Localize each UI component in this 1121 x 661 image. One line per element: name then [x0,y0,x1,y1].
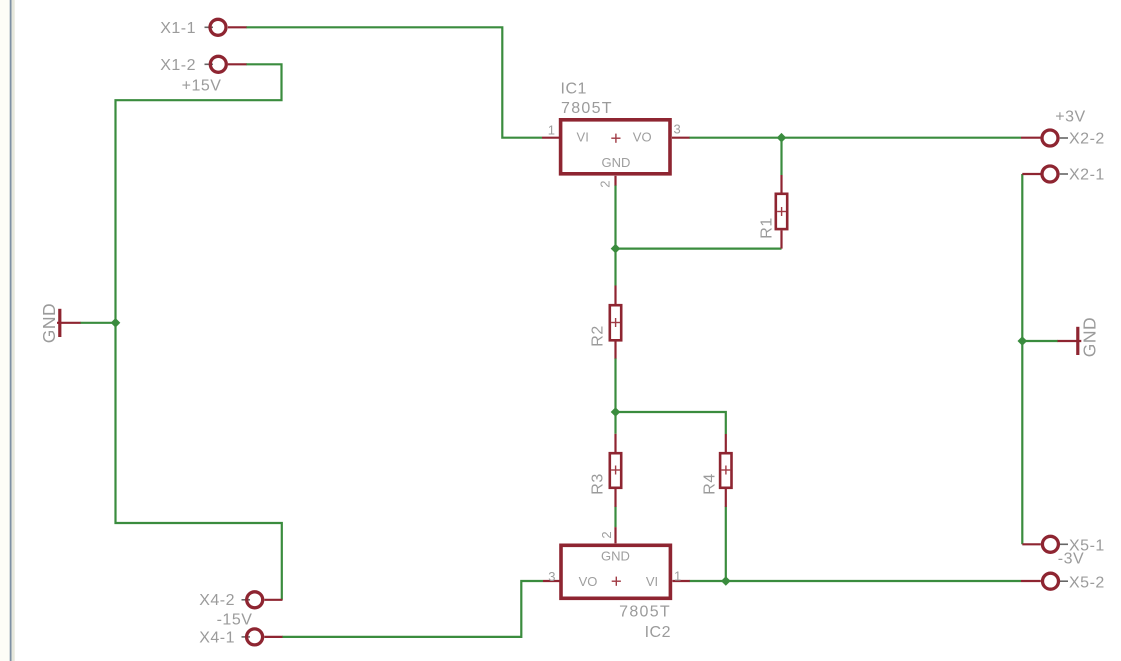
svg-text:2: 2 [599,531,614,538]
connector pin X1-1 [205,19,247,35]
svg-text:GND: GND [602,155,631,170]
svg-text:1: 1 [548,123,555,138]
wire junction to R1 bottom [616,248,782,250]
connector pin X4-2 [242,592,283,608]
svg-text:7805T: 7805T [561,100,613,117]
left window edge (decorative frame) [0,0,15,661]
svg-text:X5-2: X5-2 [1069,575,1105,592]
junction right GND net [1017,336,1027,346]
svg-text:7805T: 7805T [619,604,671,621]
wire mid junction to R3 top [614,412,616,434]
connector pin X4-1 [242,629,283,645]
supply symbol GND (left) [57,309,81,337]
wire X1-2 / +15V long net to X4-2 [116,64,282,600]
junction +3V rail / R1 top [777,133,787,143]
resistor R3 [610,434,621,507]
wire +15V net GND spur to left GND symbol [80,322,116,324]
connector pin X5-1 [1022,536,1068,552]
wire R1 top drop [780,138,782,175]
svg-text:VI: VI [577,130,589,145]
junction on +15V net at left vertical [111,318,121,328]
wire X2-1 to X5-1 (right GND net) [1021,174,1023,544]
svg-text:R4: R4 [702,473,719,494]
connector pin X2-2 [1021,130,1068,146]
wire IC1 pin 2 down to junction [614,185,616,249]
svg-text:VO: VO [579,574,598,589]
wire R2 bottom to mid junction [614,358,616,412]
IC2 voltage regulator 7805T (rotated 180) [543,527,690,598]
svg-text:X2-1: X2-1 [1069,167,1105,184]
wire R4 bottom to -3V rail junction [725,507,727,582]
resistor R4 [720,434,731,507]
svg-text:GND: GND [39,303,59,343]
connector pin X5-2 [1021,573,1068,589]
connector pin X2-1 [1022,166,1068,182]
wire X4-1 to IC2 pin 3 (-15V net) [282,581,543,637]
svg-text:+3V: +3V [1055,109,1085,126]
svg-text:GND: GND [601,549,630,564]
junction R2/R3/R4 node [611,407,621,417]
IC1 voltage regulator 7805T [542,120,690,186]
junction -3V rail / R4 bottom [721,576,731,586]
svg-text:+15V: +15V [182,78,222,95]
svg-text:IC2: IC2 [645,624,671,641]
wire X1-1 to IC1 pin 1 (net N$1) [246,27,542,137]
svg-text:X1-2: X1-2 [160,57,196,74]
resistor R1 [776,175,787,249]
svg-text:3: 3 [674,122,681,137]
wire mid junction to R4 top [616,412,726,434]
svg-text:X4-1: X4-1 [199,630,235,647]
svg-text:-3V: -3V [1058,551,1084,568]
svg-text:X1-1: X1-1 [160,20,196,37]
svg-text:X2-2: X2-2 [1069,131,1105,148]
svg-text:VO: VO [633,130,652,145]
svg-text:2: 2 [597,180,612,187]
supply symbol GND (right) [1058,327,1082,355]
wire IC1 pin 3 to X2-2 (+3V rail) [689,137,1021,139]
svg-text:-15V: -15V [217,612,253,629]
svg-text:R2: R2 [590,325,607,346]
svg-text:X4-2: X4-2 [199,592,235,609]
wire IC2 pin 1 to X5-2 (-3V rail) [690,580,1022,582]
connector pin X1-2 [205,56,247,72]
junction GND/R1/R2 node [611,244,621,254]
wire junction to R2 top [614,249,616,286]
svg-text:R1: R1 [759,217,776,238]
svg-text:GND: GND [1080,317,1100,357]
svg-text:3: 3 [548,569,555,584]
svg-text:VI: VI [646,574,658,589]
resistor R2 [610,286,621,359]
svg-text:IC1: IC1 [561,81,587,98]
svg-text:R3: R3 [590,473,607,494]
wire R3 bottom to IC2 pin 2 [614,507,616,528]
svg-text:1: 1 [674,569,681,584]
wire right GND spur [1022,340,1058,342]
